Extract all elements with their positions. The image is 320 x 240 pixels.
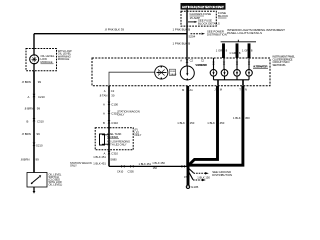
svg-text:99: 99 [37, 107, 41, 111]
svg-text:C310: C310 [37, 119, 44, 123]
svg-text:FUEL: FUEL [170, 71, 176, 73]
svg-text:.8 TAN: .8 TAN [99, 94, 107, 98]
svg-text:M: M [220, 88, 223, 92]
svg-text:.8 BRN: .8 BRN [22, 80, 31, 84]
svg-text:150: 150 [190, 121, 195, 125]
svg-text:VOLTMETER: VOLTMETER [195, 63, 207, 67]
svg-text:C305: C305 [128, 169, 135, 173]
svg-text:HOT IN RUN, BULB TEST OR START: HOT IN RUN, BULB TEST OR START [182, 5, 224, 9]
svg-text:SENDER: SENDER [107, 135, 118, 139]
svg-text:.8 BRN: .8 BRN [20, 158, 29, 162]
svg-text:1 GRY: 1 GRY [229, 51, 237, 55]
svg-text:C410: C410 [117, 169, 124, 173]
svg-text:1 BLK 451: 1 BLK 451 [93, 155, 106, 159]
svg-text:S210: S210 [36, 143, 43, 147]
svg-text:1 BLK 450: 1 BLK 450 [152, 161, 165, 165]
svg-text:A: A [103, 103, 105, 107]
svg-text:ONLY: ONLY [70, 164, 77, 168]
svg-text:GAGE: GAGE [170, 73, 177, 76]
svg-text:1 PNK BLK: 1 PNK BLK [173, 41, 188, 45]
svg-text:.8 PNK BLK 39: .8 PNK BLK 39 [105, 28, 125, 32]
svg-text:1 BLK: 1 BLK [207, 121, 215, 125]
svg-text:C310: C310 [111, 152, 118, 156]
svg-text:1 BLK 150: 1 BLK 150 [197, 176, 210, 180]
svg-text:B: B [103, 121, 105, 125]
svg-text:C310: C310 [111, 121, 118, 125]
svg-text:C2: C2 [190, 59, 194, 63]
svg-text:B: B [188, 41, 190, 45]
svg-text:BLOCK: BLOCK [218, 14, 228, 18]
svg-text:8: 8 [251, 49, 253, 53]
svg-text:150: 150 [184, 175, 189, 179]
svg-text:C2: C2 [201, 60, 205, 63]
svg-text:1 BLK 451: 1 BLK 451 [139, 162, 152, 166]
svg-text:1 GRY: 1 GRY [216, 49, 224, 53]
svg-text:A: A [28, 95, 30, 99]
svg-text:G105: G105 [191, 185, 199, 189]
svg-text:A1: A1 [190, 88, 194, 92]
svg-text:ALTERNATOR: ALTERNATOR [253, 65, 268, 69]
svg-text:C100: C100 [111, 103, 118, 107]
svg-text:.8 BRN: .8 BRN [22, 132, 31, 136]
svg-text:MODULE: MODULE [41, 60, 53, 64]
svg-text:MODULE: MODULE [58, 57, 70, 61]
svg-text:.8 BRN: .8 BRN [24, 107, 33, 111]
svg-text:A: A [103, 112, 105, 116]
svg-text:A: A [180, 59, 182, 63]
svg-text:1 PNK BLK: 1 PNK BLK [173, 27, 188, 31]
svg-text:S204: S204 [189, 35, 196, 39]
svg-text:30: 30 [111, 94, 115, 98]
svg-text:1 BLK: 1 BLK [233, 116, 241, 120]
svg-text:J: J [214, 88, 216, 92]
svg-text:1 GRY: 1 GRY [242, 49, 250, 53]
svg-text:C2: C2 [111, 89, 115, 93]
svg-text:DISTRIBUTION: DISTRIBUTION [212, 173, 232, 177]
svg-text:A: A [104, 152, 106, 156]
svg-text:PANEL LIGHTS DETAILS: PANEL LIGHTS DETAILS [227, 31, 262, 35]
svg-text:ONLY: ONLY [135, 133, 142, 137]
svg-text:450: 450 [220, 121, 225, 125]
svg-text:B: B [27, 119, 29, 123]
svg-text:1 BLK 451: 1 BLK 451 [93, 161, 106, 165]
svg-text:M: M [182, 88, 185, 92]
svg-text:8: 8 [239, 51, 241, 55]
svg-text:99: 99 [37, 132, 41, 136]
svg-text:150: 150 [153, 166, 158, 170]
svg-text:ONLY: ONLY [117, 112, 124, 116]
svg-text:N: N [245, 88, 247, 92]
svg-text:99: 99 [36, 158, 40, 162]
svg-text:OIL LEVEL): OIL LEVEL) [49, 183, 63, 187]
svg-text:1 BLK: 1 BLK [177, 121, 185, 125]
svg-text:DISTRIBUTION: DISTRIBUTION [207, 33, 227, 37]
svg-text:C210: C210 [38, 95, 45, 99]
svg-text:T: T [239, 88, 241, 92]
svg-text:SECTION 8A: SECTION 8A [273, 63, 286, 67]
svg-text:99: 99 [38, 80, 42, 84]
svg-text:S680: S680 [110, 158, 117, 162]
svg-text:450: 450 [245, 116, 250, 120]
svg-text:8: 8 [226, 49, 228, 53]
svg-text:BLOCK DETAILS: BLOCK DETAILS [198, 22, 220, 26]
svg-text:WITH LE2 ONLY: WITH LE2 ONLY [107, 143, 127, 147]
svg-text:B: B [188, 27, 190, 31]
svg-text:A: A [104, 89, 106, 93]
